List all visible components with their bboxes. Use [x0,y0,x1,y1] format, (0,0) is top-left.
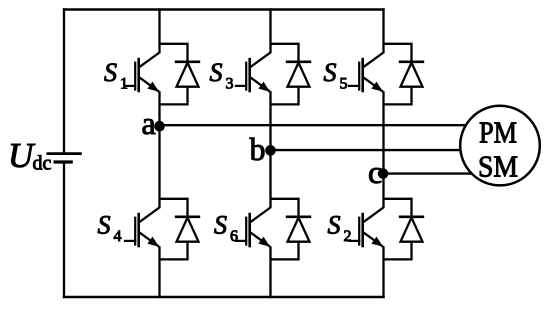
wire: leg 1 middle (S1 emitter to S4 collector, phase node) [158,91,160,207]
diode D4 (antiparallel with S4) [160,199,201,260]
svg-text:S: S [214,211,227,240]
svg-text:6: 6 [230,228,238,245]
diode D2 (antiparallel with S2) [384,199,425,260]
wire: leg 2 middle (S3 emitter to S6 collector, phase node) [269,91,271,207]
node c (junction dot) [378,168,389,179]
diode D6 (antiparallel with S6) [271,199,312,260]
wire: leg 2 lower (S6 emitter to negative rail) [269,246,271,298]
wire: left rail from source - terminal to bottom bus [63,162,65,298]
wire: negative DC bus (bottom rail) [63,296,385,298]
svg-text:S: S [104,58,117,87]
IGBT S2 [348,207,384,247]
wire: leg 3 lower (S2 emitter to negative rail) [382,246,384,298]
svg-text:S: S [98,211,111,240]
diode D3 (antiparallel with S3) [271,44,312,105]
wire: leg 1 lower (S4 emitter to negative rail) [158,246,160,298]
IGBT S5 [348,52,384,92]
svg-text:SM: SM [478,150,518,184]
svg-text:1: 1 [120,75,128,92]
diode D5 (antiparallel with S5) [384,44,425,105]
wire: leg 2 upper (positive rail to S3 collector) [269,8,271,52]
IGBT S4 [124,207,160,247]
svg-text:c: c [368,154,382,190]
IGBT S6 [235,207,271,247]
svg-text:S: S [324,58,337,87]
svg-text:PM: PM [479,115,517,149]
node b (junction dot) [265,145,276,156]
wire: phase c output [384,172,479,174]
dc voltage source U_dc (battery symbol) [47,154,82,162]
svg-text:4: 4 [114,228,122,245]
svg-text:S: S [328,211,341,240]
svg-text:dc: dc [33,153,52,175]
svg-text:5: 5 [340,75,348,92]
wire: left rail from top bus to source + terminal [63,8,65,153]
wire: positive DC bus (top rail) [63,8,385,10]
wire: leg 3 middle (S5 emitter to S2 collector, phase node) [382,91,384,207]
svg-text:a: a [142,105,156,141]
wire: leg 1 upper (positive rail to S1 collector) [158,8,160,52]
wire: leg 3 upper (positive rail to S5 collector) [382,8,384,52]
IGBT S1 [124,52,160,92]
IGBT S3 [235,52,271,92]
svg-text:3: 3 [226,75,234,92]
wire: phase a output [160,124,479,126]
svg-text:b: b [250,131,266,167]
node a (junction dot) [154,121,165,132]
motor PMSM (machine circle) [460,106,540,186]
wire: phase b output [271,149,471,151]
svg-text:S: S [210,58,223,87]
diode D1 (antiparallel with S1) [160,44,201,105]
svg-text:2: 2 [344,228,352,245]
